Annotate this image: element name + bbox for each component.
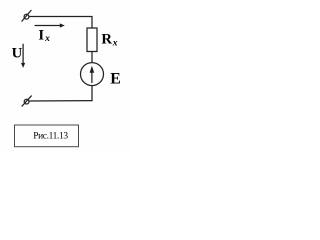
current arrow Ix shaft — [35, 25, 62, 27]
svg-text:Рис.11.13: Рис.11.13 — [33, 132, 68, 142]
terminal top-left — [22, 10, 31, 21]
wire right vertical (top to resistor) — [91, 17, 93, 29]
wire bottom — [29, 100, 92, 102]
wire top — [29, 16, 92, 18]
terminal bottom-left — [22, 96, 31, 106]
voltage arrow U shaft — [22, 44, 24, 64]
source E internal arrow head — [90, 66, 95, 73]
source E internal arrow shaft — [91, 71, 93, 83]
wire source to bottom corner — [91, 86, 93, 101]
caption box — [15, 125, 79, 147]
wire resistor to source — [91, 52, 93, 63]
resistor Rx — [87, 28, 97, 52]
voltage arrow U head — [21, 63, 25, 68]
svg-text:E: E — [110, 71, 121, 88]
current arrow Ix head — [60, 23, 65, 27]
svg-text:U: U — [12, 46, 23, 62]
source E circle — [81, 63, 104, 86]
